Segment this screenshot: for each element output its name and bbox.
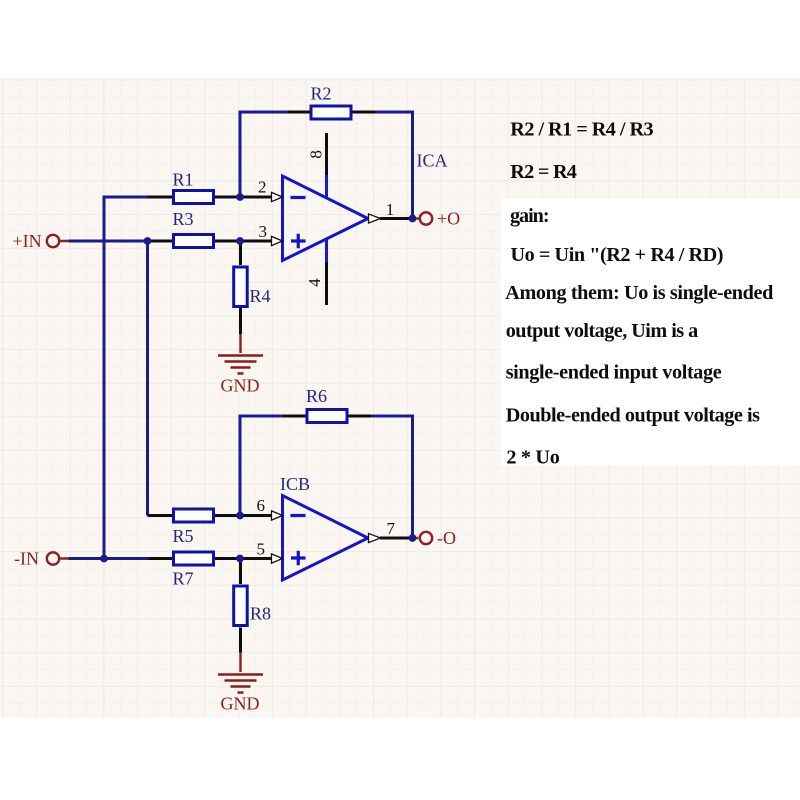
svg-text:ICA: ICA bbox=[417, 151, 448, 171]
svg-text:6: 6 bbox=[257, 496, 266, 515]
svg-text:4: 4 bbox=[305, 278, 324, 287]
svg-text:gain:: gain: bbox=[510, 205, 550, 227]
svg-text:R1: R1 bbox=[173, 170, 194, 190]
svg-text:GND: GND bbox=[221, 694, 260, 714]
svg-text:Double-ended output voltage is: Double-ended output voltage is bbox=[506, 405, 760, 427]
svg-text:Among them: Uo is single-ended: Among them: Uo is single-ended bbox=[505, 282, 773, 304]
svg-text:+IN: +IN bbox=[13, 231, 42, 251]
svg-text:R7: R7 bbox=[173, 569, 194, 589]
svg-text:R5: R5 bbox=[173, 526, 194, 546]
svg-text:R2 = R4: R2 = R4 bbox=[510, 161, 577, 183]
svg-text:8: 8 bbox=[307, 150, 326, 159]
svg-text:ICB: ICB bbox=[280, 474, 310, 494]
svg-text:output voltage, Uim is a: output voltage, Uim is a bbox=[506, 320, 699, 342]
svg-text:2 * Uo: 2 * Uo bbox=[506, 447, 559, 469]
svg-text:Uo = Uin "(R2 + R4 / RD): Uo = Uin "(R2 + R4 / RD) bbox=[511, 244, 724, 266]
svg-text:-IN: -IN bbox=[14, 548, 39, 568]
svg-text:R2 / R1 = R4 / R3: R2 / R1 = R4 / R3 bbox=[510, 118, 653, 140]
svg-text:2: 2 bbox=[258, 178, 267, 197]
svg-text:5: 5 bbox=[257, 540, 266, 559]
svg-text:+O: +O bbox=[437, 208, 460, 228]
svg-text:single-ended input voltage: single-ended input voltage bbox=[506, 362, 722, 384]
svg-text:1: 1 bbox=[386, 200, 395, 219]
svg-text:GND: GND bbox=[221, 376, 260, 396]
svg-text:R4: R4 bbox=[250, 286, 271, 306]
svg-text:7: 7 bbox=[387, 519, 396, 538]
svg-text:R2: R2 bbox=[311, 84, 332, 104]
svg-text:3: 3 bbox=[259, 222, 268, 241]
svg-text:R3: R3 bbox=[173, 209, 194, 229]
svg-text:-O: -O bbox=[437, 528, 456, 548]
svg-text:R6: R6 bbox=[306, 386, 327, 406]
svg-text:R8: R8 bbox=[250, 604, 271, 624]
